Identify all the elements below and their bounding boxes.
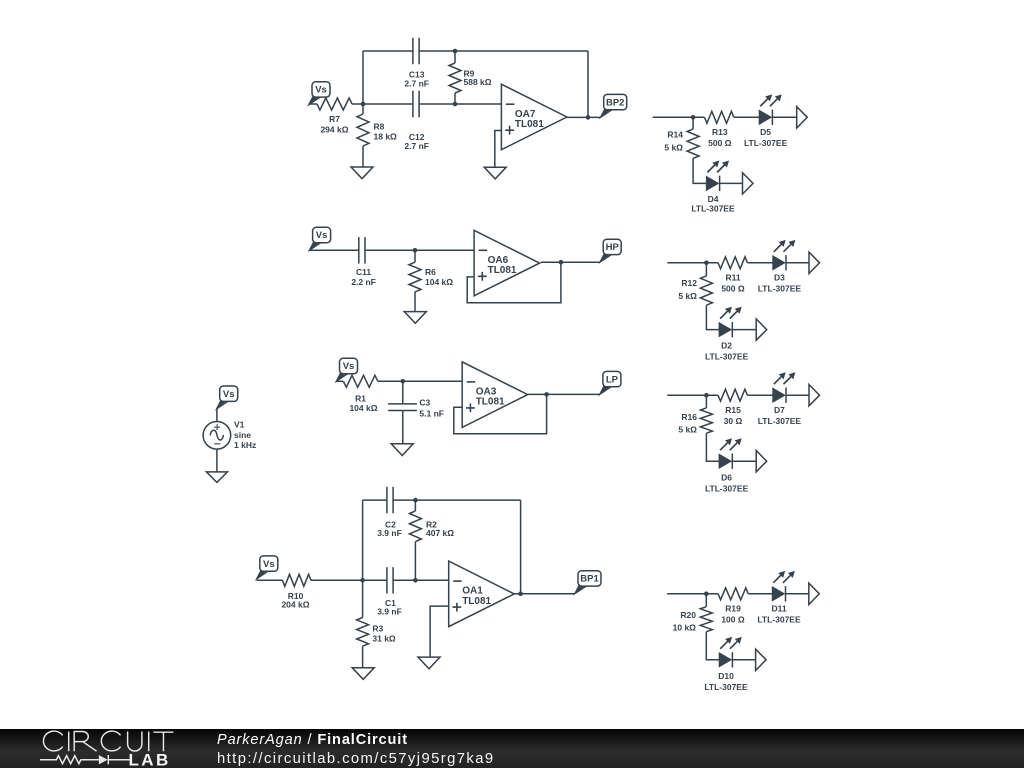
CircuitLab logo resistor-diode graphic [40, 756, 99, 764]
svg-text:D10: D10 [718, 671, 734, 681]
resistor R14 [687, 129, 699, 158]
node LED block4 junction [704, 592, 709, 597]
wire feedback vertical row4 [520, 500, 522, 594]
svg-text:D5: D5 [760, 127, 771, 137]
node R6 junction [413, 248, 418, 253]
svg-text:1 kHz: 1 kHz [234, 440, 256, 450]
svg-text:TL081: TL081 [476, 397, 505, 408]
svg-text:Vs: Vs [315, 85, 327, 96]
wire R8 to ground [362, 146, 364, 167]
svg-text:Vs: Vs [223, 389, 235, 400]
svg-text:D2: D2 [721, 340, 732, 350]
wire OA1 plus input to ground [430, 606, 449, 657]
wire top rail left segment [363, 50, 413, 52]
wire R20 to D10 [706, 632, 719, 660]
wire D10 to ground [732, 659, 755, 661]
svg-text:BP1: BP1 [580, 574, 599, 585]
ground under OA7 [484, 167, 506, 179]
LED D5 [759, 110, 771, 124]
resistor R20 top lead [705, 594, 707, 607]
svg-text:3.9 nF: 3.9 nF [377, 607, 402, 617]
wire D5 to ground [772, 116, 796, 118]
svg-text:HP: HP [606, 242, 620, 253]
wire C12 to op-amp [419, 103, 501, 105]
LED D6 [719, 454, 731, 468]
svg-text:R8: R8 [374, 121, 385, 131]
node LED block2 junction [704, 261, 709, 266]
wire LED block4 input [667, 593, 718, 595]
svg-text:LP: LP [606, 374, 619, 385]
svg-text:R11: R11 [725, 273, 740, 283]
op-amp OA1 [449, 561, 515, 627]
resistor R10 [282, 574, 311, 586]
wire R9 bottom lead [454, 93, 456, 104]
resistor R3 [357, 618, 369, 647]
resistor R6 top lead [414, 250, 416, 262]
resistor R16 top lead [705, 395, 707, 408]
svg-text:TL081: TL081 [488, 265, 517, 276]
flag HP [600, 253, 614, 262]
ground right of D11 [809, 583, 820, 604]
wire OA1 output [514, 593, 575, 595]
svg-text:C3: C3 [419, 398, 430, 408]
ground under R3 [352, 668, 374, 680]
svg-text:LTL-307EE: LTL-307EE [758, 416, 802, 426]
LED D11 [772, 587, 784, 601]
svg-text:R7: R7 [329, 114, 340, 124]
wire C11 to op-amp [365, 249, 474, 251]
wire Vs to R1 [336, 380, 343, 382]
svg-text:R1: R1 [355, 393, 366, 403]
resistor R20 [700, 607, 712, 632]
capacitor C3 [388, 404, 417, 411]
svg-text:2.2 nF: 2.2 nF [351, 277, 376, 287]
svg-text:R12: R12 [681, 278, 697, 288]
resistor R14 top lead [692, 117, 694, 129]
svg-text:2.7 nF: 2.7 nF [404, 141, 429, 151]
wire R16 to D6 [706, 433, 719, 461]
svg-text:Vs: Vs [316, 230, 328, 241]
resistor R8 top lead [362, 104, 364, 114]
wire D3 to ground [786, 262, 809, 264]
op-amp OA3 [462, 362, 528, 428]
capacitor C2 [387, 487, 393, 513]
wire OA6 feedback [467, 262, 561, 303]
svg-text:R3: R3 [372, 624, 383, 634]
node OA1 output junction [518, 591, 523, 596]
LED D10 [719, 653, 731, 667]
resistor R19 [718, 588, 748, 600]
wire D6 to ground [732, 460, 756, 462]
node R2 bottom junction [413, 578, 418, 583]
capacitor C1 [387, 567, 393, 593]
resistor R13 [705, 111, 734, 123]
resistor R16 [700, 408, 712, 433]
wire feedback vertical row1 [587, 51, 589, 117]
node LED block3 junction [704, 393, 709, 398]
LED D7 [773, 388, 785, 402]
wire R2 top lead [414, 500, 416, 511]
svg-text:LTL-307EE: LTL-307EE [705, 483, 749, 493]
svg-text:5.1 nF: 5.1 nF [419, 409, 444, 419]
wire R1 to op-amp [378, 380, 462, 382]
wire R10 to node [311, 579, 387, 581]
resistor R1 [343, 375, 377, 387]
resistor R11 [718, 257, 747, 269]
wire OA7 plus input to ground [495, 131, 502, 168]
svg-text:R6: R6 [425, 267, 436, 277]
wire D2 to ground [732, 329, 756, 331]
wire D7 to ground [786, 394, 809, 396]
wire R12 to D2 [706, 305, 719, 329]
wire OA3 feedback [454, 394, 547, 433]
svg-text:R14: R14 [667, 130, 683, 140]
flag LP [600, 385, 614, 394]
svg-text:TL081: TL081 [515, 119, 544, 130]
node input junction row1 [361, 102, 366, 107]
svg-text:5 kΩ: 5 kΩ [678, 425, 697, 435]
wire Vs to R7 [309, 103, 317, 105]
svg-text:C11: C11 [356, 267, 371, 277]
wire node up to top rail row4 [362, 500, 364, 580]
wire LED block1 input [653, 116, 705, 118]
svg-text:sine: sine [234, 430, 251, 440]
wire R7 to node and C12 [352, 103, 413, 105]
svg-text:407 kΩ: 407 kΩ [426, 528, 454, 538]
wire D11 to ground [786, 593, 809, 595]
wire R19 to D11 [748, 593, 772, 595]
svg-text:R15: R15 [725, 405, 741, 415]
wire OA7 output [567, 116, 601, 118]
svg-text:104 kΩ: 104 kΩ [425, 277, 453, 287]
ground under R6 [404, 312, 426, 324]
flag Vs (V1 source) [217, 400, 231, 409]
wire node up to top rail [362, 51, 364, 104]
svg-text:LTL-307EE: LTL-307EE [691, 204, 735, 214]
ground right of D10 [756, 649, 767, 670]
resistor R3 top lead [362, 580, 364, 617]
wire R6 to ground [414, 292, 416, 312]
wire top rail right segment [419, 50, 588, 52]
svg-text:R13: R13 [712, 127, 728, 137]
node input junction row4 [360, 578, 365, 583]
svg-text:Vs: Vs [343, 361, 355, 372]
svg-text:ParkerAgan / FinalCircuit: ParkerAgan / FinalCircuit [217, 732, 408, 748]
wire D4 to ground [720, 182, 743, 184]
wire R3 to ground [362, 646, 364, 668]
svg-text:D7: D7 [774, 405, 785, 415]
CircuitLab logo CIRCUIT (thin hand-drawn letters) [43, 731, 173, 751]
svg-text:LTL-307EE: LTL-307EE [758, 284, 802, 294]
wire top rail left row4 [363, 499, 387, 501]
svg-text:30 Ω: 30 Ω [724, 416, 743, 426]
svg-text:R16: R16 [681, 412, 697, 422]
svg-text:5 kΩ: 5 kΩ [678, 291, 697, 301]
svg-text:D3: D3 [774, 273, 785, 283]
svg-text:D6: D6 [721, 472, 732, 482]
svg-text:3.9 nF: 3.9 nF [377, 528, 402, 538]
svg-text:LTL-307EE: LTL-307EE [744, 138, 788, 148]
wire V1 to ground [216, 449, 218, 472]
flag Vs (row4 input) [257, 570, 271, 579]
LED D3 [773, 256, 785, 270]
svg-text:18 kΩ: 18 kΩ [374, 132, 398, 142]
ground right of D2 [756, 319, 767, 340]
svg-text:Vs: Vs [263, 559, 275, 570]
svg-text:104 kΩ: 104 kΩ [349, 403, 377, 413]
LED D4 [706, 177, 718, 191]
svg-text:5 kΩ: 5 kΩ [664, 142, 683, 152]
wire C3 to ground [402, 411, 404, 444]
ground under R8 [351, 167, 373, 179]
svg-text:500 Ω: 500 Ω [721, 284, 745, 294]
svg-text:LTL-307EE: LTL-307EE [704, 682, 748, 692]
node LED block1 junction [691, 115, 696, 120]
wire top rail right row4 [393, 499, 520, 501]
ground under V1 [206, 472, 227, 483]
svg-text:500 Ω: 500 Ω [708, 138, 732, 148]
wire LED block3 input [667, 394, 718, 396]
svg-text:R20: R20 [680, 610, 696, 620]
svg-text:LTL-307EE: LTL-307EE [705, 351, 749, 361]
svg-text:http://circuitlab.com/c57yj95r: http://circuitlab.com/c57yj95rg7ka9 [217, 751, 495, 767]
wire R2 bottom lead [414, 542, 416, 581]
svg-text:294 kΩ: 294 kΩ [320, 124, 348, 134]
node OA6 output junction [559, 260, 564, 265]
wire C1 to op-amp [393, 579, 448, 581]
svg-text:D11: D11 [771, 604, 786, 614]
svg-text:BP2: BP2 [606, 97, 624, 108]
ground right of D4 [743, 173, 754, 194]
svg-text:31 kΩ: 31 kΩ [372, 633, 396, 643]
wire LED block2 input [667, 262, 718, 264]
wire C3 top lead [402, 381, 404, 404]
svg-text:588 kΩ: 588 kΩ [464, 77, 492, 87]
wire Vs to R10 [257, 579, 283, 581]
resistor R12 [700, 276, 712, 305]
wire Vs to C11 [309, 249, 358, 251]
svg-text:2.7 nF: 2.7 nF [404, 78, 429, 88]
op-amp OA7 [501, 84, 567, 150]
node R2 top junction [413, 498, 418, 503]
svg-text:204 kΩ: 204 kΩ [281, 600, 309, 610]
resistor R15 [718, 389, 747, 401]
flag Vs (row3 input) [336, 372, 350, 381]
node R9 bottom junction [453, 102, 458, 107]
ground right of D3 [809, 252, 820, 273]
flag Vs (row2 input) [309, 241, 323, 250]
wire R9 top lead [454, 51, 456, 63]
node OA3 output junction [544, 392, 549, 397]
resistor R7 [317, 98, 352, 110]
ground right of D7 [809, 385, 820, 406]
node R9 top junction [453, 49, 458, 54]
svg-text:TL081: TL081 [462, 596, 491, 607]
flag BP2 [601, 108, 615, 117]
svg-text:V1: V1 [234, 419, 245, 429]
ground under C3 [391, 444, 413, 456]
ground right of D5 [797, 107, 808, 128]
wire R15 to D7 [747, 394, 772, 396]
voltage source V1 [203, 422, 231, 450]
svg-text:10 kΩ: 10 kΩ [673, 623, 697, 633]
wire Vs to V1 [216, 409, 218, 422]
svg-text:100 Ω: 100 Ω [721, 615, 745, 625]
wire R14 to D4 [693, 158, 706, 183]
wire OA6 output [541, 261, 600, 263]
resistor R2 [409, 511, 421, 542]
node OA7 output junction [586, 115, 591, 120]
capacitor C12 [413, 91, 419, 117]
LED D2 [719, 323, 731, 337]
capacitor C11 [359, 237, 365, 263]
flag Vs (row1 input) [309, 96, 323, 105]
wire OA3 output [528, 393, 600, 395]
resistor R6 [409, 262, 421, 292]
op-amp OA6 [474, 230, 539, 295]
wire R11 to D3 [747, 262, 772, 264]
resistor R8 [357, 114, 369, 146]
ground right of D6 [756, 451, 767, 472]
svg-text:R19: R19 [725, 604, 741, 614]
resistor R12 top lead [705, 263, 707, 276]
ground under OA1 [418, 657, 440, 669]
resistor R9 [449, 63, 461, 93]
flag BP1 [575, 585, 589, 594]
svg-text:LTL-307EE: LTL-307EE [757, 615, 801, 625]
svg-text:LAB: LAB [129, 751, 171, 768]
node C3 junction [401, 379, 406, 384]
capacitor C13 [413, 38, 419, 64]
wire R13 to D5 [734, 116, 759, 118]
